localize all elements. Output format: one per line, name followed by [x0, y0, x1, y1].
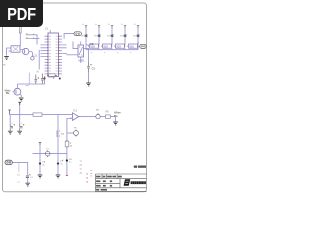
wire — [80, 42, 82, 46]
resistor R9 — [56, 131, 58, 138]
label VB GoLive — [134, 166, 146, 168]
pin stubs right — [59, 36, 68, 74]
wire — [88, 72, 90, 83]
resistor R1 — [19, 27, 21, 34]
svg-text:NJ01: NJ01 — [79, 59, 86, 63]
pin numbers inside — [49, 36, 58, 74]
junction node A — [39, 163, 41, 165]
power flag V3 — [39, 143, 42, 146]
polarity mark — [23, 124, 24, 125]
wire — [33, 145, 67, 164]
pin tick — [71, 117, 72, 119]
ground — [113, 122, 118, 125]
wire — [57, 154, 59, 164]
svg-text:SD3: SD3 — [103, 45, 108, 48]
wire — [34, 38, 40, 40]
svg-text:1N: 1N — [133, 36, 136, 38]
wire output — [79, 116, 96, 118]
label flag texts — [82, 24, 137, 26]
capacitor C4 — [10, 125, 13, 131]
ground — [38, 175, 43, 178]
connector P1 — [5, 160, 12, 164]
wire — [39, 164, 41, 175]
wire — [100, 116, 105, 118]
pin 1 wire — [49, 30, 51, 33]
wire — [52, 77, 54, 80]
wire — [57, 115, 59, 154]
trimmer RV1 — [74, 131, 79, 136]
power flag VCC3 — [111, 26, 113, 28]
diode D2 — [98, 35, 100, 37]
svg-text:1N: 1N — [107, 36, 110, 38]
svg-text:1N: 1N — [94, 36, 97, 38]
wire — [110, 116, 115, 118]
diode D3 — [111, 35, 113, 37]
ground pad left — [44, 78, 46, 80]
power flag VCC5 — [137, 26, 139, 28]
PDF badge — [0, 0, 43, 27]
capacitor C1 — [35, 75, 38, 85]
op-amp U4 — [73, 113, 79, 121]
resistor R7 — [33, 113, 42, 116]
ground — [86, 83, 91, 86]
wire — [19, 33, 21, 46]
polarity mark — [90, 64, 91, 65]
fuse F1 — [45, 151, 50, 156]
page background — [0, 0, 149, 198]
resistor R8 — [106, 115, 111, 118]
ground pad right — [59, 78, 61, 80]
net flag GND1 — [74, 32, 81, 36]
svg-text:TL0: TL0 — [73, 110, 78, 113]
resistor R6 — [129, 44, 138, 48]
ground — [25, 183, 30, 186]
wire — [38, 50, 40, 70]
resistor R3 — [90, 44, 99, 48]
wire — [64, 34, 74, 39]
ground — [56, 175, 61, 178]
analog switch U3 — [78, 45, 84, 57]
wire — [20, 114, 33, 116]
power flag VCC4 — [124, 26, 126, 28]
ground — [8, 131, 13, 134]
wire — [7, 48, 12, 56]
row4 text — [96, 189, 107, 191]
row1 text — [96, 176, 122, 178]
wire — [42, 114, 73, 116]
wire — [115, 117, 117, 122]
wire — [20, 50, 32, 57]
node port — [31, 57, 34, 60]
row3 text — [96, 185, 112, 187]
wire — [66, 133, 68, 141]
wire — [34, 35, 37, 45]
svg-text:Blu: Blu — [114, 114, 118, 118]
pin ticks boxes — [89, 46, 138, 47]
wire bus — [86, 49, 138, 51]
junction node B — [57, 163, 59, 165]
wire — [80, 57, 82, 63]
transistor Q1 — [23, 48, 29, 54]
net label NET2 — [26, 37, 35, 38]
sheet border frame — [3, 3, 147, 192]
pin tick — [66, 175, 68, 177]
wire — [67, 119, 73, 134]
wire — [84, 48, 89, 62]
diode D1 — [85, 35, 87, 37]
ground — [4, 57, 9, 60]
svg-text:SD3: SD3 — [129, 45, 134, 48]
cell separator logo — [119, 179, 121, 188]
power flag VCC1 — [85, 26, 87, 28]
svg-text:SD3: SD3 — [116, 45, 121, 48]
svg-text:1N: 1N — [81, 36, 84, 38]
wire — [86, 45, 125, 50]
wire — [10, 105, 20, 125]
wire — [18, 163, 20, 173]
polarity mark — [44, 76, 45, 77]
wire — [13, 84, 22, 97]
test point TP1 — [96, 114, 100, 118]
resistor R2 — [49, 74, 56, 77]
logo text — [131, 181, 146, 184]
ground — [19, 98, 24, 101]
svg-text:U1: U1 — [45, 27, 49, 31]
svg-text:Q1: Q1 — [34, 54, 38, 58]
power flag V1 — [8, 110, 11, 115]
ST logo — [124, 179, 131, 186]
wire — [73, 42, 78, 49]
transistor Q2 — [14, 88, 21, 95]
wire — [138, 46, 140, 49]
capacitor C3 — [87, 62, 90, 72]
wire — [12, 163, 27, 176]
ground — [17, 131, 22, 134]
row2 text — [96, 180, 112, 182]
wire — [66, 147, 68, 175]
capacitor C2 — [41, 74, 44, 85]
title block table frame — [96, 174, 147, 192]
cell separators row1 — [102, 174, 117, 179]
power flag VCC2 — [98, 26, 100, 28]
svg-text:SD3: SD3 — [90, 45, 95, 48]
net label NET1 — [26, 34, 35, 35]
pin ticks right — [58, 36, 60, 74]
wire — [18, 80, 45, 85]
power flag V2 — [18, 102, 21, 105]
wire — [86, 28, 138, 50]
resistor R10 — [65, 141, 69, 147]
svg-text:1N: 1N — [120, 36, 123, 38]
capacitor C5 — [19, 125, 22, 131]
svg-text:C3: C3 — [92, 67, 96, 71]
polarity mark — [38, 77, 39, 78]
polarity mark — [14, 124, 15, 125]
wire — [67, 54, 79, 56]
capacitor C10 — [26, 176, 29, 177]
svg-text:TP: TP — [96, 109, 99, 112]
diode D5 — [137, 35, 139, 37]
wire stub — [26, 73, 30, 86]
connector P2 — [140, 44, 146, 48]
wire — [67, 132, 74, 134]
wire — [57, 164, 59, 175]
optocoupler U2 — [11, 46, 20, 52]
op-amp U1 body — [48, 33, 59, 77]
resistor R4 — [103, 44, 112, 48]
resistor R5 — [116, 44, 125, 48]
pin stubs left — [41, 36, 49, 74]
wire — [27, 177, 29, 182]
pin ticks left — [47, 36, 49, 74]
junction node C — [66, 159, 68, 161]
diode D4 — [124, 35, 126, 37]
